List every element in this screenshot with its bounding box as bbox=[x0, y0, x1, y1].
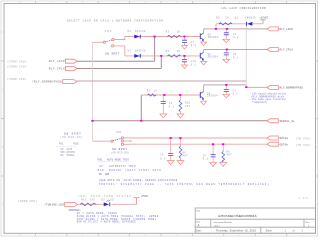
svg-text:R11: R11 bbox=[81, 199, 87, 202]
svg-text:--------------------: -------------------- bbox=[98, 161, 129, 164]
svg-text:C: C bbox=[316, 89, 318, 92]
svg-text:1K: 1K bbox=[154, 89, 158, 92]
svg-text:(FROM CPU): (FROM CPU) bbox=[7, 60, 27, 63]
svg-text:0.1: 0.1 bbox=[233, 93, 239, 96]
svg-text:Document Number: Document Number bbox=[214, 221, 233, 224]
svg-text:0.1: 0.1 bbox=[160, 157, 166, 160]
svg-text:+15VDC: +15VDC bbox=[259, 16, 269, 19]
svg-text:RLY_LKCP: RLY_LKCP bbox=[49, 60, 65, 63]
svg-text:4K7: 4K7 bbox=[183, 154, 189, 157]
svg-text:C5: C5 bbox=[160, 153, 164, 156]
svg-text:0.1: 0.1 bbox=[191, 63, 197, 66]
svg-text:(ON-MID-ON): (ON-MID-ON) bbox=[111, 152, 130, 155]
svg-text:R9: R9 bbox=[147, 89, 151, 92]
svg-text:Sheet: Sheet bbox=[266, 230, 273, 233]
svg-text:D2: D2 bbox=[128, 30, 132, 33]
svg-text:LED: LED bbox=[108, 199, 114, 202]
svg-text:1K: 1K bbox=[225, 16, 229, 19]
svg-text:R5: R5 bbox=[216, 16, 220, 19]
svg-text:0.1: 0.1 bbox=[233, 36, 239, 39]
svg-text:2N3904: 2N3904 bbox=[207, 95, 218, 98]
svg-text:1K: 1K bbox=[177, 31, 181, 34]
svg-text:D: D bbox=[2, 31, 4, 34]
svg-text:1N4148: 1N4148 bbox=[135, 50, 146, 53]
svg-text:UP AUTOMATIC TRIO: UP AUTOMATIC TRIO bbox=[100, 165, 137, 168]
svg-text:Date:: Date: bbox=[196, 230, 202, 233]
svg-text:SW SPDT: SW SPDT bbox=[105, 52, 119, 55]
svg-text:R2: R2 bbox=[166, 50, 170, 53]
svg-text:4K7: 4K7 bbox=[185, 105, 191, 108]
svg-text:/TUNING_LED: /TUNING_LED bbox=[44, 202, 64, 206]
svg-text:SW1: SW1 bbox=[116, 131, 122, 134]
svg-text:ARM: ARM bbox=[105, 173, 110, 176]
svg-text:+5VDC: +5VDC bbox=[141, 195, 149, 198]
svg-text:DAH DI DI DIT = AUTO MODE, BYP: DAH DI DI DIT = AUTO MODE, BYPASSED bbox=[77, 221, 137, 224]
svg-text:4K7: 4K7 bbox=[227, 154, 233, 157]
svg-text:1K: 1K bbox=[177, 50, 181, 53]
svg-text:D: D bbox=[316, 31, 318, 34]
svg-text:/RLY_NORMBYPASS: /RLY_NORMBYPASS bbox=[32, 80, 62, 84]
svg-text:<Doc>: <Doc> bbox=[214, 224, 221, 227]
svg-text:0.1: 0.1 bbox=[233, 56, 239, 59]
svg-text:SW3: SW3 bbox=[105, 30, 112, 33]
svg-text:R3: R3 bbox=[166, 31, 170, 34]
svg-text:LKL LACP CONFIGURATION: LKL LACP CONFIGURATION bbox=[221, 7, 266, 10]
svg-text:RLY_LKCP: RLY_LKCP bbox=[280, 28, 294, 31]
svg-text:0.1: 0.1 bbox=[203, 158, 209, 161]
svg-text:(ON-MID-ON): (ON-MID-ON) bbox=[60, 136, 83, 139]
svg-text:0.1: 0.1 bbox=[191, 44, 197, 47]
svg-text:RLY_NORMBYPASS: RLY_NORMBYPASS bbox=[280, 87, 304, 90]
svg-text:SW DPDT: SW DPDT bbox=[112, 148, 127, 151]
svg-text:0.1: 0.1 bbox=[169, 105, 175, 108]
svg-text:AUTO-TUNER, OTHER CONTROLS: AUTO-TUNER, OTHER CONTROLS bbox=[218, 214, 257, 218]
svg-text:SERIAL_AL: SERIAL_AL bbox=[280, 120, 295, 123]
svg-text:(SEE NOTE ON 'AUTO-TUNER, SERI: (SEE NOTE ON 'AUTO-TUNER, SERIES-CAPACIT… bbox=[99, 179, 178, 182]
svg-text:OUT4a: OUT4a bbox=[280, 137, 289, 140]
svg-text:(FROM CPU): (FROM CPU) bbox=[7, 78, 27, 81]
svg-text:(TO CPU): (TO CPU) bbox=[296, 138, 312, 141]
svg-text:MANUAL: MANUAL bbox=[67, 154, 76, 157]
svg-text:Thursday, September 10, 2015: Thursday, September 10, 2015 bbox=[216, 230, 257, 233]
svg-text:MID MANUAL (WAIT FIRST AUTO: MID MANUAL (WAIT FIRST AUTO bbox=[98, 169, 162, 172]
svg-text:of: of bbox=[293, 230, 295, 233]
svg-text:RLY_CPLX: RLY_CPLX bbox=[280, 49, 294, 52]
svg-text:1N5B19: 1N5B19 bbox=[245, 16, 256, 19]
svg-text:0.27b: 0.27b bbox=[299, 197, 309, 200]
svg-text:1N4148: 1N4148 bbox=[135, 30, 146, 33]
svg-text:C: C bbox=[2, 89, 4, 92]
svg-text:SELECT LACP OR CPLX L-NETWORK: SELECT LACP OR CPLX L-NETWORK CONFIGURAT… bbox=[67, 20, 163, 23]
svg-text:LED, AUTO-TUNE STATUS: LED, AUTO-TUNE STATUS bbox=[78, 195, 131, 198]
svg-text:D1: D1 bbox=[235, 16, 239, 19]
svg-text:(FROM CPU): (FROM CPU) bbox=[7, 66, 27, 69]
svg-text:D5: D5 bbox=[102, 199, 106, 202]
svg-text:(TO CPU): (TO CPU) bbox=[296, 144, 312, 147]
svg-text:transistor): transistor) bbox=[252, 101, 267, 104]
svg-text:2N3904: 2N3904 bbox=[208, 36, 219, 39]
svg-text:D3: D3 bbox=[128, 50, 132, 53]
svg-text:CONTROL' SCHEMATIC PAGE -- THI: CONTROL' SCHEMATIC PAGE -- THIS CONTROL … bbox=[99, 183, 269, 186]
svg-text:2N3904: 2N3904 bbox=[208, 56, 219, 59]
svg-text:(FROM CPU): (FROM CPU) bbox=[18, 200, 38, 203]
svg-text:330: 330 bbox=[90, 199, 96, 202]
svg-text:RLY_CPLX: RLY_CPLX bbox=[49, 68, 65, 71]
svg-text:OUT4b: OUT4b bbox=[280, 142, 289, 146]
